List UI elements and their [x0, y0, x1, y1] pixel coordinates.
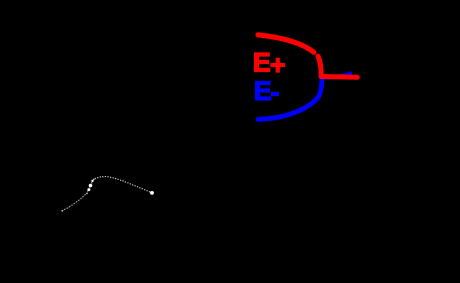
curve E+ upper branch (red) — [258, 35, 314, 53]
curve E- horizontal tail (blue, mostly hidden under red) — [322, 74, 350, 78]
svg-text:E+: E+ — [253, 47, 286, 80]
trajectory dotted curve — [62, 176, 154, 212]
svg-text:E-: E- — [254, 76, 280, 107]
curve E+/E- degenerate horizontal line (red) — [321, 74, 357, 80]
curve E- lower branch (blue) — [258, 79, 322, 119]
curve E+ upper branch steep part (red) — [318, 56, 321, 75]
